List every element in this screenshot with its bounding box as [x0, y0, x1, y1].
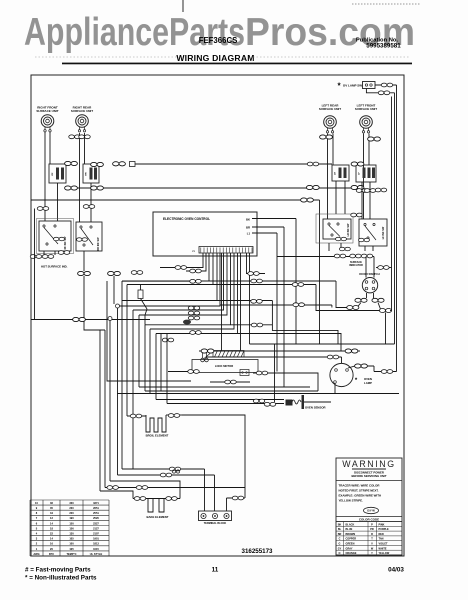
svg-text:YELLOW: YELLOW [379, 552, 390, 555]
svg-text:5995389581: 5995389581 [366, 43, 401, 50]
svg-text:316255173: 316255173 [242, 548, 274, 555]
svg-text:NOTED FIRST, STRIPE NEXT.: NOTED FIRST, STRIPE NEXT. [339, 489, 379, 493]
svg-text:RR INF SW: RR INF SW [97, 237, 100, 251]
svg-text:TRACER WIRE: WIRE COLOR: TRACER WIRE: WIRE COLOR [339, 484, 381, 488]
svg-text:BROIL ELEMENT: BROIL ELEMENT [146, 434, 169, 438]
svg-text:SURFACE UNIT: SURFACE UNIT [319, 107, 341, 111]
svg-text:INDICATOR: INDICATOR [349, 264, 363, 267]
svg-text:O: O [339, 552, 341, 555]
svg-text:WARNING: WARNING [342, 459, 395, 469]
svg-text:WIRING DIAGRAM: WIRING DIAGRAM [176, 53, 254, 63]
svg-text:G/Y-W: G/Y-W [367, 509, 375, 513]
svg-text:LAMP: LAMP [364, 381, 372, 385]
svg-text:AppliancePartsPros.com: AppliancePartsPros.com [24, 11, 415, 54]
svg-text:190: 190 [69, 516, 74, 520]
svg-text:230: 230 [69, 506, 74, 510]
svg-text:# = Fast-moving Parts: # = Fast-moving Parts [25, 567, 91, 574]
svg-text:2551: 2551 [93, 511, 99, 515]
svg-text:GRAY: GRAY [346, 547, 353, 550]
svg-text:SURFACE UNIT: SURFACE UNIT [355, 107, 377, 111]
svg-text:330: 330 [69, 501, 74, 505]
svg-text:1015: 1015 [93, 547, 99, 551]
svg-text:2327: 2327 [93, 521, 99, 525]
svg-text:LOCK MOTOR: LOCK MOTOR [215, 364, 233, 368]
svg-text:BROWN: BROWN [346, 533, 356, 536]
svg-text:BK: BK [246, 218, 250, 222]
svg-text:BK: BK [338, 523, 342, 526]
svg-text:YELLOW STRIPE.: YELLOW STRIPE. [339, 499, 364, 503]
svg-text:1901: 1901 [93, 537, 99, 541]
svg-text:FEF366CS: FEF366CS [199, 36, 238, 45]
svg-text:VIOLET: VIOLET [379, 543, 389, 546]
svg-text:BEFORE SERVICING UNIT: BEFORE SERVICING UNIT [351, 474, 386, 478]
svg-text:130: 130 [69, 532, 74, 536]
svg-text:AWG: AWG [33, 552, 39, 556]
svg-text:C: C [339, 538, 341, 541]
svg-text:BL: BL [338, 528, 342, 531]
svg-text:ELECTRONIC OVEN CONTROL: ELECTRONIC OVEN CONTROL [163, 217, 210, 221]
svg-text:RED: RED [379, 533, 384, 536]
svg-text:L1: L1 [247, 232, 251, 236]
svg-text:TEMP°C: TEMP°C [66, 552, 76, 556]
svg-text:3371: 3371 [93, 501, 99, 505]
svg-text:ORANGE: ORANGE [346, 552, 357, 555]
svg-text:G: G [339, 543, 341, 546]
svg-text:PR: PR [370, 528, 374, 531]
svg-text:BLACK: BLACK [346, 523, 355, 526]
svg-text:FPC: FPC [49, 552, 54, 556]
svg-text:150: 150 [69, 521, 74, 525]
svg-text:WHITE: WHITE [379, 547, 387, 550]
svg-text:TAN: TAN [379, 538, 384, 541]
svg-text:* = Non-illustrated Parts: * = Non-illustrated Parts [25, 575, 97, 582]
svg-text:2107: 2107 [93, 532, 99, 536]
svg-text:11: 11 [212, 567, 219, 574]
svg-text:UL STYLE: UL STYLE [90, 552, 103, 556]
svg-text:156: 156 [69, 526, 74, 530]
svg-text:220: 220 [69, 511, 74, 515]
svg-text:COLOR CODE: COLOR CODE [359, 517, 379, 521]
svg-text:BLUE: BLUE [346, 528, 353, 531]
svg-text:PINK: PINK [379, 523, 385, 526]
svg-text:100: 100 [69, 542, 74, 546]
svg-text:SURFACE UNIT: SURFACE UNIT [71, 109, 93, 113]
svg-text:LR INF SW: LR INF SW [347, 223, 350, 236]
svg-text:1813: 1813 [93, 542, 99, 546]
svg-text:2651: 2651 [93, 506, 99, 510]
svg-text:COPPER: COPPER [346, 538, 357, 541]
svg-text:EXAMPLE: GREEN WIRE WITH: EXAMPLE: GREEN WIRE WITH [339, 494, 382, 498]
svg-text:105: 105 [69, 537, 74, 541]
svg-text:HOT SURFACE IND.: HOT SURFACE IND. [41, 265, 68, 269]
svg-text:GREEN: GREEN [346, 543, 355, 546]
svg-text:2520: 2520 [93, 516, 99, 520]
svg-text:04/03: 04/03 [388, 567, 404, 574]
svg-text:SURFACE UNIT: SURFACE UNIT [36, 109, 58, 113]
svg-text:GY: GY [338, 547, 342, 550]
svg-text:BR: BR [338, 533, 342, 536]
svg-text:DOOR SWITCH: DOOR SWITCH [359, 272, 379, 276]
svg-text:2127: 2127 [93, 526, 99, 530]
svg-text:TERMINAL BLOCK: TERMINAL BLOCK [204, 522, 227, 525]
svg-text:OVEN SENSOR: OVEN SENSOR [305, 406, 326, 410]
svg-text:BR: BR [246, 226, 250, 230]
svg-text:BAKE ELEMENT: BAKE ELEMENT [146, 515, 168, 519]
svg-text:105: 105 [69, 547, 74, 551]
svg-text:OV LAMP SW: OV LAMP SW [343, 84, 362, 88]
svg-text:RR: RR [86, 172, 88, 176]
svg-text:LF INF SW: LF INF SW [382, 226, 385, 239]
svg-text:LR: LR [335, 172, 337, 175]
svg-text:PURPLE: PURPLE [379, 528, 389, 531]
svg-text:R: R [371, 533, 373, 536]
